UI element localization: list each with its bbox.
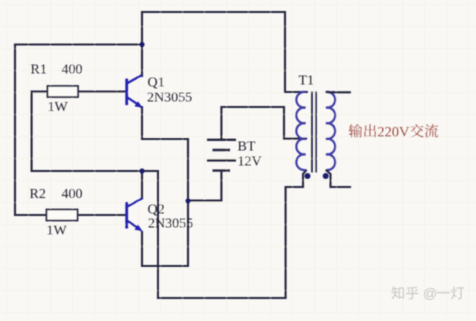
node Q1 collector / R2 feedback junction bbox=[139, 42, 144, 47]
resistor R1 bbox=[48, 86, 79, 97]
wire cross-coupling from R1 to Q2 collector node bbox=[32, 170, 158, 172]
transformer T1 secondary polarity dot bbox=[323, 173, 329, 179]
wire R1 to Q1 base bbox=[78, 91, 126, 93]
transformer T1 core bbox=[312, 92, 316, 173]
transistor Q1 bbox=[127, 75, 143, 108]
svg-text:1W: 1W bbox=[47, 224, 68, 239]
svg-text:BT: BT bbox=[238, 140, 256, 155]
wire cross-coupling from Q1 collector node to R2 bbox=[15, 45, 142, 216]
wire battery bottom to emitter rail bbox=[188, 171, 221, 201]
svg-text:1W: 1W bbox=[48, 100, 69, 115]
svg-text:2N3055: 2N3055 bbox=[147, 91, 192, 106]
svg-text:400: 400 bbox=[62, 63, 83, 78]
resistor R2 bbox=[47, 210, 78, 221]
svg-text:Q1: Q1 bbox=[148, 76, 165, 91]
transistor Q2 bbox=[127, 198, 143, 231]
transformer T1 secondary top lead bbox=[327, 91, 351, 93]
svg-text:T1: T1 bbox=[299, 74, 315, 89]
wire Q2 collector node to transformer primary bottom bbox=[158, 171, 306, 299]
wire Q2 emitter down to rail bbox=[142, 201, 188, 266]
svg-text:400: 400 bbox=[62, 187, 83, 202]
wire Q1 emitter to battery positive node bbox=[142, 107, 188, 201]
transformer T1 primary polarity dot bbox=[305, 173, 311, 179]
watermark 知乎 @一灯 bbox=[391, 286, 403, 299]
node Q2 collector / R1 feedback junction bbox=[139, 168, 144, 173]
wire R1 left to cross-coupling node bbox=[32, 92, 48, 171]
node battery negative / emitter junction bbox=[185, 198, 190, 203]
svg-text:@: @ bbox=[423, 286, 437, 302]
transformer T1 secondary winding (right) bbox=[326, 92, 335, 170]
wire Q1 collector vertical bbox=[141, 12, 143, 76]
wire R2 to Q2 base bbox=[78, 214, 126, 216]
svg-text:R1: R1 bbox=[31, 63, 47, 78]
svg-text:2N3055: 2N3055 bbox=[148, 217, 193, 232]
svg-text:R2: R2 bbox=[30, 187, 46, 202]
svg-text:Q2: Q2 bbox=[148, 203, 165, 218]
wire Q2 collector vertical bbox=[141, 171, 143, 198]
transformer T1 secondary bottom lead bbox=[327, 171, 351, 188]
wire top rail from Q1 collector to transformer primary top bbox=[142, 12, 307, 92]
svg-text:12V: 12V bbox=[238, 155, 262, 170]
node output label 输出220V交流 bbox=[349, 124, 363, 137]
transformer T1 primary winding (left) bbox=[296, 92, 305, 170]
wire battery top to transformer center tap bbox=[221, 107, 306, 140]
svg-text:220V: 220V bbox=[377, 124, 410, 140]
battery BT plates bbox=[207, 140, 236, 171]
